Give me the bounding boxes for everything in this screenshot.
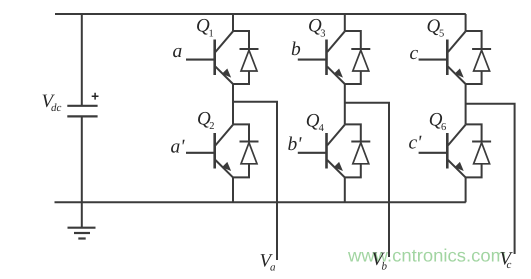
wire: Q2 emitter to bottom bus	[232, 177, 234, 202]
svg-text:c: c	[410, 43, 419, 64]
svg-text:a': a'	[171, 137, 186, 158]
wire: base lead of Q1	[186, 59, 215, 61]
svg-text:dc: dc	[51, 102, 62, 114]
wire: base lead of Q2	[186, 152, 215, 154]
wire: top bus to Q3 collector	[344, 14, 346, 31]
transistor Q4	[327, 125, 345, 178]
svg-text:4: 4	[319, 123, 325, 134]
wire: D2 loop (Q2 collector to emitter)	[233, 124, 249, 177]
ground	[68, 202, 96, 238]
wire: base lead of Q4	[298, 152, 327, 154]
diode D1 (anti-parallel with Q1)	[240, 49, 259, 71]
wire: phase a output	[233, 102, 277, 260]
svg-text:1: 1	[209, 28, 214, 39]
svg-text:a: a	[270, 262, 276, 274]
wire: top bus to Q1 collector	[232, 14, 234, 31]
svg-text:c: c	[507, 259, 512, 271]
svg-text:5: 5	[439, 29, 444, 40]
diode D5 (anti-parallel with Q5)	[472, 49, 491, 71]
wire: capacitor to bottom bus	[81, 116, 83, 202]
wire: phase b output	[345, 103, 389, 257]
transistor Q2	[215, 125, 233, 178]
wire: top bus to Q5 collector	[465, 14, 467, 31]
wire: Q4 emitter to bottom bus	[344, 177, 346, 202]
diode D4 (anti-parallel with Q4)	[351, 142, 370, 164]
wire: phase midpoint (Q5 emitter to Q6 collector)	[465, 84, 467, 124]
wire: D6 loop (Q6 collector to emitter)	[466, 124, 482, 177]
wire: phase midpoint (Q3 emitter to Q4 collector)	[344, 84, 346, 124]
transistor Q1	[215, 31, 233, 84]
svg-text:c': c'	[409, 133, 423, 154]
svg-text:b: b	[382, 261, 388, 273]
wire: Q6 emitter to bottom bus	[465, 177, 467, 202]
wire: base lead of Q3	[298, 59, 327, 61]
diode D6 (anti-parallel with Q6)	[472, 142, 491, 164]
svg-text:3: 3	[320, 29, 325, 40]
wire: D4 loop (Q4 collector to emitter)	[345, 124, 361, 177]
diode D2 (anti-parallel with Q2)	[240, 142, 259, 164]
svg-text:b: b	[291, 39, 301, 60]
transistor Q5	[447, 31, 465, 84]
top DC bus (+) wire	[55, 13, 466, 15]
wire: D1 loop (Q1 collector to emitter)	[233, 31, 249, 84]
wire: phase c output	[466, 104, 515, 254]
svg-text:a: a	[173, 41, 183, 62]
svg-text:2: 2	[209, 121, 214, 132]
svg-text:Q: Q	[306, 110, 320, 131]
wire: phase midpoint (Q1 emitter to Q2 collector)	[232, 84, 234, 124]
svg-text:6: 6	[441, 122, 446, 133]
wire: top bus to capacitor	[81, 14, 83, 106]
wire: base lead of Q5	[419, 59, 448, 61]
transistor Q6	[447, 125, 465, 178]
capacitor Vdc (DC link)	[67, 106, 97, 117]
bottom DC bus (-) wire	[55, 201, 466, 203]
wire: D3 loop (Q3 collector to emitter)	[345, 31, 361, 84]
wire: D5 loop (Q5 collector to emitter)	[466, 31, 482, 84]
polarity mark +	[92, 93, 99, 100]
transistor Q3	[327, 31, 345, 84]
svg-text:b': b'	[288, 134, 303, 155]
wire: base lead of Q6	[419, 152, 448, 154]
diode D3 (anti-parallel with Q3)	[351, 49, 370, 71]
